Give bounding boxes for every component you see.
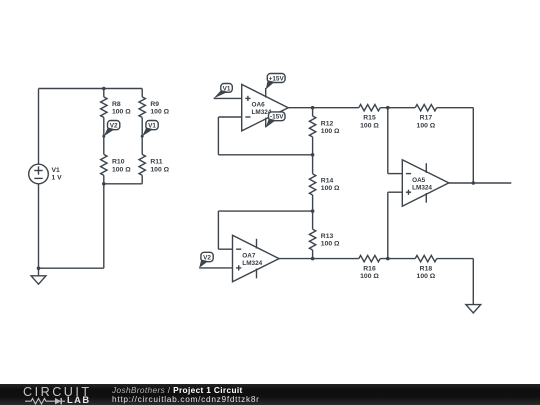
svg-text:R14: R14 xyxy=(321,178,334,185)
svg-text:V2: V2 xyxy=(110,123,118,130)
svg-text:100 Ω: 100 Ω xyxy=(321,128,340,135)
wire xyxy=(387,108,389,174)
node junction xyxy=(311,153,315,157)
wire xyxy=(472,108,474,183)
resistor R10 xyxy=(101,136,132,184)
svg-text:100 Ω: 100 Ω xyxy=(321,185,340,192)
svg-text:100 Ω: 100 Ω xyxy=(150,166,169,173)
svg-text:+15V: +15V xyxy=(269,75,285,82)
wire xyxy=(288,107,359,109)
svg-text:V2: V2 xyxy=(203,254,211,261)
wire xyxy=(279,258,359,260)
wire xyxy=(38,89,40,165)
svg-text:R17: R17 xyxy=(420,115,433,122)
svg-text:V1: V1 xyxy=(52,167,61,174)
svg-text:R15: R15 xyxy=(363,115,376,122)
svg-text:R13: R13 xyxy=(321,233,334,240)
wire xyxy=(388,173,403,175)
svg-text:100 Ω: 100 Ω xyxy=(360,122,379,129)
net flag V1 on R9-R11 node xyxy=(141,121,159,138)
resistor R16 xyxy=(359,255,380,280)
svg-text:OA5: OA5 xyxy=(412,177,426,184)
node junction xyxy=(311,209,315,213)
node junction xyxy=(37,266,41,270)
wire xyxy=(387,192,389,258)
net flag V2 on R8-R10 node xyxy=(102,121,120,138)
svg-text:100 Ω: 100 Ω xyxy=(150,109,169,116)
wire xyxy=(437,258,474,260)
CircuitLab logo xyxy=(23,386,93,404)
resistor R15 xyxy=(359,105,380,130)
svg-text:LM324: LM324 xyxy=(412,185,432,192)
wire xyxy=(472,259,474,305)
node junction xyxy=(472,181,476,185)
wire xyxy=(217,211,219,249)
op-amp OA5 xyxy=(402,160,449,207)
resistor R9 xyxy=(139,89,170,137)
svg-text:V1: V1 xyxy=(223,85,231,92)
svg-text:V1: V1 xyxy=(148,123,156,130)
wire xyxy=(218,116,241,118)
resistor R8 xyxy=(101,89,132,137)
svg-text:100 Ω: 100 Ω xyxy=(112,166,131,173)
svg-text:-15V: -15V xyxy=(270,114,284,121)
node junction xyxy=(102,182,106,186)
resistor R18 xyxy=(415,255,437,280)
net flag V1 at OA6 non-inverting input xyxy=(214,84,233,99)
svg-text:100 Ω: 100 Ω xyxy=(417,122,436,129)
net flag +15V on OA6 positive supply pin xyxy=(266,74,285,90)
svg-text:R16: R16 xyxy=(363,266,376,273)
svg-text:100 Ω: 100 Ω xyxy=(112,109,131,116)
resistor R13 xyxy=(309,211,340,259)
node junction xyxy=(386,257,390,261)
node junction xyxy=(311,257,315,261)
svg-text:R9: R9 xyxy=(150,101,159,108)
svg-text:LM324: LM324 xyxy=(242,260,262,267)
svg-text:R18: R18 xyxy=(420,266,433,273)
title text xyxy=(112,386,260,404)
ground xyxy=(466,305,481,313)
footer bar xyxy=(0,384,540,405)
wire xyxy=(380,258,415,260)
wire xyxy=(39,88,143,90)
svg-text:R11: R11 xyxy=(150,159,162,166)
resistor R11 xyxy=(139,136,170,184)
net flag -15V on OA6 negative supply pin xyxy=(266,112,285,128)
svg-text:100 Ω: 100 Ω xyxy=(417,273,436,280)
wire xyxy=(449,182,512,184)
wire xyxy=(218,248,232,250)
svg-text:R8: R8 xyxy=(112,101,121,108)
node junction xyxy=(102,87,106,91)
svg-text:100 Ω: 100 Ω xyxy=(360,273,379,280)
wire xyxy=(218,154,312,156)
svg-text:OA7: OA7 xyxy=(242,253,256,260)
svg-text:R10: R10 xyxy=(112,159,125,166)
svg-text:OA6: OA6 xyxy=(252,102,266,109)
wire xyxy=(104,183,142,185)
wire xyxy=(214,97,242,99)
node junction xyxy=(311,106,315,110)
svg-text:1 V: 1 V xyxy=(52,175,63,182)
wire xyxy=(437,107,474,109)
resistor R17 xyxy=(415,105,437,130)
svg-text:R12: R12 xyxy=(321,120,334,127)
net flag V2 at OA7 non-inverting input xyxy=(199,252,213,268)
wire xyxy=(199,267,232,269)
svg-text:100 Ω: 100 Ω xyxy=(321,241,340,248)
resistor R14 xyxy=(309,155,340,211)
wire xyxy=(388,191,403,193)
ground xyxy=(31,268,46,284)
node junction xyxy=(386,106,390,110)
op-amp OA7 xyxy=(233,235,280,281)
voltage source V1 xyxy=(29,164,62,184)
wire xyxy=(38,184,40,268)
wire xyxy=(218,210,312,212)
wire xyxy=(380,107,415,109)
wire xyxy=(217,117,219,155)
wire xyxy=(103,184,105,268)
wire xyxy=(39,267,104,269)
resistor R12 xyxy=(309,108,340,155)
op-amp OA6 xyxy=(242,84,289,130)
